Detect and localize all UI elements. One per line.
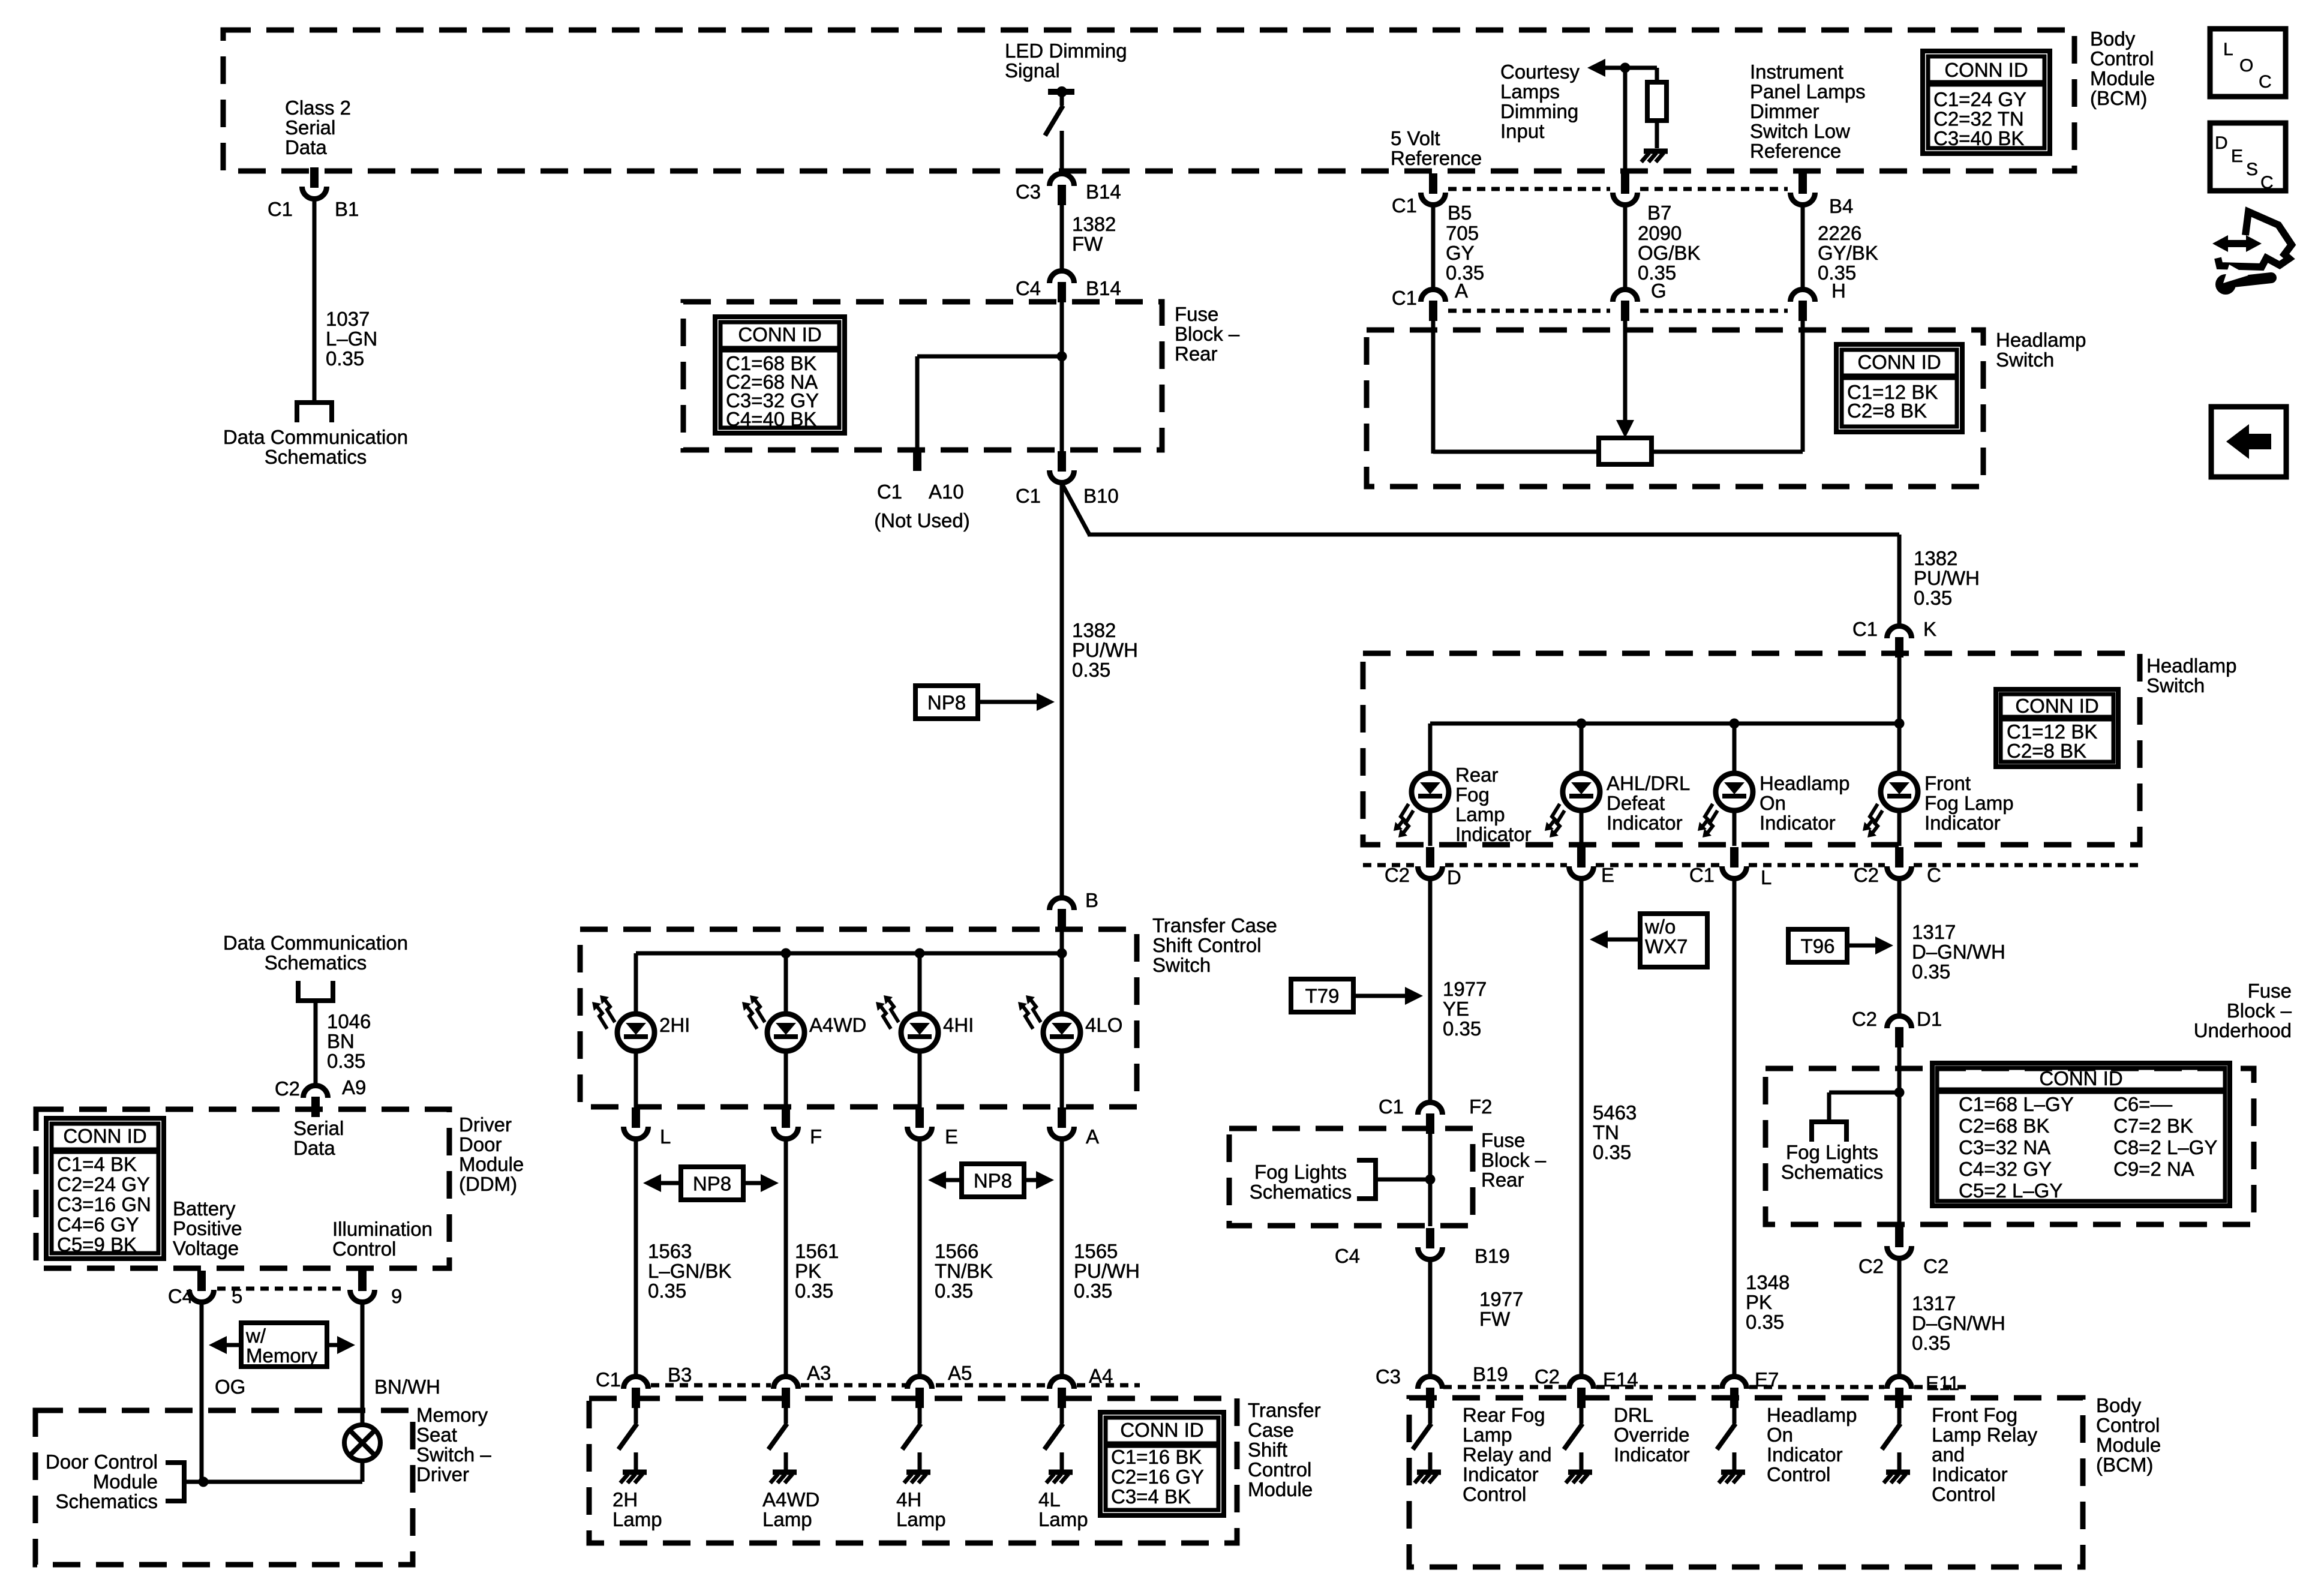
- option box w/o WX7: [1640, 914, 1707, 967]
- wire courtesy to resistor: [1625, 68, 1657, 82]
- svg-text:AHL/DRL: AHL/DRL: [1607, 772, 1690, 794]
- svg-text:0.35: 0.35: [795, 1280, 833, 1302]
- dotted connector line transfer module b: [801, 1383, 906, 1388]
- svg-text:1382: 1382: [1072, 213, 1116, 235]
- svg-text:B14: B14: [1086, 181, 1121, 203]
- svg-text:Control: Control: [2096, 1414, 2160, 1436]
- svg-text:C1=4 BK: C1=4 BK: [57, 1153, 137, 1175]
- connector E7: [1722, 1377, 1747, 1409]
- connector E11: [1887, 1377, 1912, 1409]
- svg-text:L: L: [660, 1125, 671, 1148]
- wire 705 GY: [1431, 206, 1436, 289]
- svg-text:4LO: 4LO: [1085, 1014, 1122, 1036]
- svg-text:Fog Lights: Fog Lights: [1254, 1161, 1347, 1183]
- dotted line ip connector bottom a: [1448, 309, 1610, 313]
- wire fog lights underhood link: [1829, 1092, 1899, 1119]
- svg-text:A5: A5: [948, 1362, 972, 1384]
- svg-text:CONN ID: CONN ID: [2039, 1067, 2122, 1089]
- svg-text:Seat: Seat: [416, 1424, 457, 1446]
- wire B into switch box: [1060, 929, 1064, 955]
- svg-text:Input: Input: [1500, 120, 1544, 142]
- svg-text:NP8: NP8: [927, 692, 966, 714]
- resistor courtesy lamps: [1647, 82, 1667, 121]
- svg-text:Switch –: Switch –: [416, 1443, 491, 1466]
- svg-text:CONN ID: CONN ID: [2015, 695, 2098, 717]
- Fuse Block - Rear box 2: [1229, 1128, 1473, 1226]
- svg-text:1977: 1977: [1443, 978, 1487, 1000]
- svg-text:C7=2 BK: C7=2 BK: [2113, 1115, 2193, 1137]
- svg-text:0.35: 0.35: [1914, 587, 1952, 609]
- ground Front Fog: [1884, 1472, 1910, 1483]
- svg-text:(BCM): (BCM): [2090, 87, 2147, 109]
- svg-text:705: 705: [1446, 222, 1479, 244]
- svg-text:Lamp: Lamp: [1463, 1424, 1512, 1446]
- arrow T96 to wire: [1847, 936, 1893, 954]
- svg-text:Fog Lamp: Fog Lamp: [1924, 792, 2014, 814]
- svg-text:L–GN/BK: L–GN/BK: [648, 1260, 731, 1282]
- svg-text:C4=40 BK: C4=40 BK: [726, 408, 816, 430]
- svg-text:C2=8 BK: C2=8 BK: [1847, 400, 1927, 422]
- wire LED Front Fog Lamp Indicator down: [1897, 809, 1902, 846]
- svg-text:Indicator: Indicator: [1614, 1443, 1690, 1466]
- arrow wiper: [1616, 420, 1634, 438]
- svg-text:C3=40 BK: C3=40 BK: [1933, 127, 2024, 149]
- connector C2/D1: [1887, 1016, 1912, 1048]
- pin labels C1 B1: [268, 198, 359, 220]
- svg-text:Dimmer: Dimmer: [1750, 100, 1819, 122]
- svg-text:Lamp: Lamp: [896, 1508, 946, 1530]
- svg-text:w/: w/: [245, 1325, 266, 1347]
- svg-text:(DDM): (DDM): [459, 1173, 517, 1195]
- svg-text:Memory: Memory: [246, 1344, 318, 1367]
- svg-text:Lamps: Lamps: [1500, 80, 1560, 103]
- svg-text:L: L: [2223, 40, 2233, 59]
- svg-text:Indicator: Indicator: [1607, 812, 1683, 834]
- dotted line headlamp conn e: [1914, 863, 2140, 867]
- svg-text:A3: A3: [807, 1362, 831, 1384]
- bracket to Door Control Module Schematics: [166, 1463, 184, 1501]
- svg-text:LED Dimming: LED Dimming: [1005, 40, 1127, 62]
- svg-text:Indicator: Indicator: [1759, 812, 1836, 834]
- svg-text:A: A: [1455, 280, 1468, 302]
- svg-text:C2=68 BK: C2=68 BK: [1959, 1115, 2049, 1137]
- svg-text:Indicator: Indicator: [1767, 1443, 1843, 1466]
- wire 1566 TN/BK: [918, 1141, 922, 1376]
- svg-text:Positive: Positive: [173, 1217, 242, 1239]
- pin labels C1 B3 A3 A5 A4: [596, 1362, 1113, 1391]
- wire bus to LED A4WD: [784, 953, 788, 1015]
- switch A4WD lamp control: [768, 1424, 787, 1470]
- arrow NP8 to wire: [978, 693, 1055, 711]
- option box NP8 left pair: [681, 1167, 743, 1200]
- svg-text:Fuse: Fuse: [2248, 980, 2292, 1002]
- svg-text:1317: 1317: [1912, 921, 1956, 943]
- LED indicator A4WD: [742, 995, 804, 1051]
- dotted connector line transfer module d: [1077, 1383, 1140, 1388]
- wire bracket to junction door control: [186, 1480, 203, 1484]
- svg-text:Headlamp: Headlamp: [1759, 772, 1849, 794]
- svg-text:Panel Lamps: Panel Lamps: [1750, 80, 1866, 103]
- wire BN/WH: [361, 1303, 365, 1425]
- svg-text:0.35: 0.35: [1074, 1280, 1112, 1302]
- junction dot fog lights: [1425, 1175, 1436, 1185]
- svg-text:Driver: Driver: [416, 1463, 469, 1485]
- svg-text:K: K: [1923, 618, 1936, 640]
- wire 1037 L-GN: [313, 200, 317, 400]
- icon LOC box: [2210, 29, 2286, 97]
- svg-text:OG/BK: OG/BK: [1638, 242, 1701, 264]
- wire OG: [200, 1303, 204, 1482]
- wire 5463 TN: [1580, 879, 1584, 1376]
- svg-text:Schematics: Schematics: [55, 1490, 158, 1512]
- svg-text:C3: C3: [1376, 1365, 1401, 1388]
- connector E bcm: [1569, 847, 1594, 878]
- svg-text:Reference: Reference: [1750, 140, 1841, 162]
- svg-text:Transfer Case: Transfer Case: [1152, 914, 1277, 936]
- svg-text:0.35: 0.35: [1443, 1017, 1481, 1040]
- dotted connector line transfer module a: [651, 1383, 771, 1388]
- wire bus to LED AHL/DRL Defeat Indicator: [1580, 724, 1584, 775]
- svg-text:w/o: w/o: [1644, 915, 1676, 938]
- svg-text:0.35: 0.35: [1593, 1141, 1631, 1163]
- ground 2H: [620, 1472, 647, 1483]
- svg-text:C1: C1: [1016, 485, 1041, 507]
- arrow courtesy lamps dimming input: [1587, 59, 1625, 77]
- wire K into headlamp switch: [1897, 658, 1902, 725]
- svg-text:0.35: 0.35: [935, 1280, 973, 1302]
- wire LED AHL/DRL Defeat Indicator down: [1580, 809, 1584, 846]
- svg-text:B10: B10: [1083, 485, 1119, 507]
- svg-text:NP8: NP8: [974, 1170, 1012, 1192]
- connector C3/B14: [1050, 174, 1074, 206]
- svg-text:GY: GY: [1446, 242, 1475, 264]
- svg-text:Data: Data: [293, 1137, 335, 1159]
- svg-text:C6=––: C6=––: [2113, 1093, 2173, 1115]
- arrow NP8 to wire A: [1024, 1171, 1054, 1189]
- svg-text:A10: A10: [929, 481, 964, 503]
- svg-text:Front: Front: [1924, 772, 1971, 794]
- svg-text:Module: Module: [2090, 67, 2155, 89]
- svg-text:C1: C1: [1379, 1095, 1404, 1118]
- pin labels L F E A: [660, 1125, 1099, 1148]
- svg-text:1977: 1977: [1479, 1288, 1523, 1310]
- svg-text:(BCM): (BCM): [2096, 1454, 2153, 1476]
- svg-text:C2=16 GY: C2=16 GY: [1111, 1466, 1204, 1488]
- svg-text:B1: B1: [335, 198, 359, 220]
- bus wire transfer case switch: [636, 951, 1062, 956]
- switch 2H lamp control: [618, 1424, 637, 1470]
- svg-text:B19: B19: [1475, 1245, 1510, 1267]
- wire 1977 YE: [1428, 879, 1433, 1101]
- wire bus to LED 4LO: [1060, 953, 1064, 1015]
- svg-text:BN: BN: [327, 1030, 355, 1052]
- svg-text:CONN ID: CONN ID: [738, 323, 821, 346]
- svg-text:C1: C1: [1392, 287, 1417, 309]
- svg-text:Relay and: Relay and: [1463, 1443, 1552, 1466]
- pin labels C4 B19: [1335, 1245, 1510, 1267]
- connector C3/B19: [1418, 1377, 1443, 1409]
- svg-text:C: C: [2259, 72, 2272, 92]
- svg-text:F2: F2: [1469, 1095, 1493, 1118]
- svg-text:C4: C4: [1335, 1245, 1360, 1267]
- connector C1/B5: [1421, 173, 1446, 205]
- svg-text:Indicator: Indicator: [1463, 1463, 1539, 1485]
- CONN ID table Headlamp Switch 2: [1996, 689, 2118, 767]
- svg-text:Data Communication: Data Communication: [223, 932, 408, 954]
- svg-text:Block –: Block –: [1481, 1149, 1547, 1171]
- svg-text:2090: 2090: [1638, 222, 1682, 244]
- svg-text:A4WD: A4WD: [762, 1488, 819, 1511]
- svg-text:L: L: [1761, 866, 1771, 888]
- svg-text:0.35: 0.35: [326, 347, 364, 370]
- switch Front Fog Lamp Relay control: [1882, 1424, 1900, 1470]
- pin labels C3 B14: [1016, 181, 1121, 203]
- svg-text:C4: C4: [1016, 277, 1041, 299]
- wire LED 4LO down: [1060, 1050, 1064, 1107]
- wire courtesy down to B7: [1623, 68, 1628, 172]
- svg-text:C1: C1: [1392, 194, 1417, 217]
- svg-text:C1=68 L–GY: C1=68 L–GY: [1959, 1093, 2074, 1115]
- svg-text:Front Fog: Front Fog: [1932, 1404, 2017, 1426]
- LED Headlamp On Indicator: [1698, 773, 1753, 837]
- svg-text:D: D: [1447, 866, 1461, 888]
- svg-text:(Not Used): (Not Used): [874, 509, 970, 532]
- CONN ID table BCM: [1923, 51, 2050, 154]
- wire G wiper into switch: [1623, 321, 1628, 420]
- bracket to Fog Lights Schematics rear: [1357, 1160, 1376, 1199]
- dotted line ip connector top a: [1448, 187, 1610, 191]
- svg-text:GY/BK: GY/BK: [1818, 242, 1878, 264]
- svg-text:Fuse: Fuse: [1175, 303, 1218, 325]
- CONN ID table Transfer Case Module: [1100, 1412, 1224, 1515]
- svg-text:Serial: Serial: [285, 116, 335, 139]
- svg-text:1566: 1566: [935, 1240, 978, 1262]
- svg-text:C4=6 GY: C4=6 GY: [57, 1214, 139, 1236]
- stub C1 A10 not used: [913, 450, 921, 471]
- connector A5: [908, 1377, 932, 1409]
- svg-text:Schematics: Schematics: [1250, 1181, 1352, 1203]
- switch DRL Override control: [1564, 1424, 1583, 1470]
- svg-text:Door Control: Door Control: [46, 1451, 158, 1473]
- svg-text:FW: FW: [1072, 233, 1103, 255]
- wire LED 4HI down: [918, 1050, 922, 1107]
- switch LED dimming signal: [1045, 86, 1074, 136]
- wire bracket to junction: [1377, 1178, 1430, 1182]
- svg-text:C: C: [2260, 173, 2274, 193]
- svg-text:B4: B4: [1829, 195, 1853, 217]
- dotted line ip connector bottom b: [1640, 309, 1788, 313]
- Headlamp Switch box 1: [1367, 330, 1983, 487]
- svg-text:1348: 1348: [1746, 1271, 1789, 1293]
- dotted line bcm conn b: [1596, 1385, 1719, 1389]
- svg-text:Underhood: Underhood: [2194, 1019, 2292, 1041]
- junction dot fuse block: [1057, 352, 1067, 362]
- svg-text:Control: Control: [1248, 1458, 1311, 1481]
- connector C1/L: [624, 1107, 648, 1139]
- svg-text:Serial: Serial: [293, 1117, 344, 1139]
- LED indicator 4HI: [876, 995, 938, 1051]
- svg-text:1382: 1382: [1072, 619, 1116, 641]
- pin labels C3 B19 C2: [1376, 1363, 1560, 1388]
- wire LED Rear Fog Lamp Indicator down: [1428, 809, 1433, 846]
- svg-text:Headlamp: Headlamp: [2146, 655, 2236, 677]
- LED Front Fog Lamp Indicator: [1863, 773, 1918, 837]
- svg-text:WX7: WX7: [1645, 935, 1688, 957]
- Headlamp Switch box 2: [1363, 653, 2140, 845]
- wire into module 4L: [1060, 1408, 1064, 1424]
- wire branch diagonal to right: [1062, 484, 1899, 625]
- wire bus to LED 4HI: [918, 953, 922, 1015]
- wire branch to A10: [917, 356, 1062, 450]
- svg-text:Block –: Block –: [2227, 999, 2292, 1022]
- svg-text:4H: 4H: [896, 1488, 921, 1511]
- ground DRL: [1566, 1472, 1592, 1483]
- svg-text:D1: D1: [1917, 1008, 1942, 1030]
- svg-text:Defeat: Defeat: [1607, 792, 1665, 814]
- svg-text:B7: B7: [1647, 202, 1671, 224]
- svg-text:CONN ID: CONN ID: [63, 1125, 146, 1147]
- wire bus to LED Rear Fog Lamp Indicator: [1428, 724, 1433, 775]
- potentiometer headlamp dimmer: [1599, 438, 1652, 464]
- svg-text:C5=9 BK: C5=9 BK: [57, 1233, 137, 1256]
- svg-text:0.35: 0.35: [1072, 659, 1110, 681]
- svg-text:Indicator: Indicator: [1455, 823, 1532, 845]
- pin labels C4 5 9: [168, 1285, 403, 1307]
- option box NP8: [915, 686, 978, 719]
- dotted line headlamp conn d: [1749, 863, 1885, 867]
- pin labels E14 E7 E11: [1603, 1368, 1959, 1394]
- arrow NP8 to wire F: [743, 1174, 779, 1192]
- wire LED dimming to C3: [1060, 131, 1064, 173]
- connector C1/A: [1421, 290, 1446, 322]
- svg-text:C: C: [1927, 864, 1941, 886]
- svg-text:Schematics: Schematics: [265, 951, 367, 974]
- dotted line bcm conn a: [1443, 1385, 1566, 1389]
- connector C4/5: [190, 1271, 214, 1302]
- connector A3: [774, 1377, 798, 1409]
- svg-text:CONN ID: CONN ID: [1857, 351, 1941, 373]
- svg-text:C4=32 GY: C4=32 GY: [1959, 1158, 2052, 1180]
- wire into BCM Front Fog: [1897, 1408, 1902, 1424]
- svg-text:Data Communication: Data Communication: [223, 426, 408, 448]
- svg-text:E: E: [2231, 146, 2243, 166]
- svg-text:A9: A9: [342, 1076, 366, 1098]
- svg-text:E: E: [1601, 864, 1614, 886]
- svg-text:5 Volt: 5 Volt: [1391, 127, 1440, 149]
- wire into module 4H: [918, 1408, 922, 1424]
- connector B4: [1791, 173, 1815, 205]
- svg-text:C2: C2: [1858, 1255, 1884, 1277]
- svg-text:Case: Case: [1248, 1419, 1294, 1441]
- connector 9: [350, 1271, 375, 1302]
- svg-text:1563: 1563: [648, 1240, 692, 1262]
- arrow NP8 to wire E: [928, 1171, 962, 1189]
- pin labels C2 D1: [1852, 1008, 1942, 1030]
- connector C4/B19: [1418, 1228, 1443, 1259]
- wire bus to LED Front Fog Lamp Indicator: [1897, 724, 1902, 775]
- svg-text:0.35: 0.35: [327, 1050, 365, 1072]
- LED Rear Fog Lamp Indicator: [1394, 773, 1449, 837]
- svg-text:Fog: Fog: [1455, 784, 1490, 806]
- option box T96: [1788, 929, 1847, 962]
- svg-text:9: 9: [391, 1285, 402, 1307]
- wire headlamp switch bottom right: [1650, 321, 1803, 452]
- svg-text:1046: 1046: [327, 1010, 371, 1032]
- CONN ID table Fuse Block Underhood: [1932, 1063, 2230, 1206]
- svg-text:Fuse: Fuse: [1481, 1129, 1525, 1151]
- pin labels C1 F2: [1379, 1095, 1493, 1118]
- svg-text:Headlamp: Headlamp: [1996, 329, 2086, 351]
- svg-text:A4WD: A4WD: [809, 1014, 866, 1036]
- svg-text:Module: Module: [93, 1470, 158, 1493]
- svg-text:OG: OG: [215, 1376, 245, 1398]
- connector G: [1613, 290, 1638, 322]
- svg-text:Transfer: Transfer: [1248, 1399, 1321, 1421]
- wire 1382 FW: [1060, 205, 1064, 270]
- svg-text:Switch Low: Switch Low: [1750, 120, 1850, 142]
- svg-text:D–GN/WH: D–GN/WH: [1912, 941, 2005, 963]
- wire 1565 PU/WH: [1060, 1141, 1064, 1376]
- svg-text:E: E: [945, 1125, 958, 1148]
- svg-text:Voltage: Voltage: [173, 1237, 239, 1259]
- svg-text:1382: 1382: [1914, 547, 1957, 569]
- bus wire headlamp switch 2: [1430, 722, 1899, 726]
- svg-text:C1=24 GY: C1=24 GY: [1933, 88, 2026, 110]
- LED AHL/DRL Defeat Indicator: [1545, 773, 1600, 837]
- svg-text:H: H: [1831, 280, 1846, 302]
- connector B transfer case switch: [1050, 898, 1074, 930]
- ground 4L: [1046, 1472, 1073, 1483]
- connector C1/F2: [1418, 1102, 1443, 1134]
- svg-text:CONN ID: CONN ID: [1120, 1419, 1203, 1441]
- connector C4/B14: [1050, 271, 1074, 302]
- wire 1561 PK: [784, 1141, 788, 1376]
- bracket to Fog Lights Schematics underhood: [1812, 1122, 1846, 1142]
- svg-text:YE: YE: [1443, 998, 1469, 1020]
- arrow w/Memory to BN/WH wire: [327, 1336, 355, 1354]
- svg-text:PK: PK: [1746, 1291, 1772, 1313]
- pin labels C2 A9: [275, 1076, 367, 1100]
- svg-text:C2: C2: [1535, 1365, 1560, 1388]
- icon service wrench: [2212, 212, 2292, 295]
- svg-text:Reference: Reference: [1391, 147, 1482, 169]
- dotted line bcm conn d: [1914, 1385, 1968, 1389]
- svg-text:CONN ID: CONN ID: [1944, 59, 2028, 81]
- svg-text:G: G: [1651, 280, 1667, 302]
- svg-text:Control: Control: [1463, 1483, 1526, 1505]
- wire D1 into fuse block underhood: [1897, 1047, 1902, 1225]
- wire LED Headlamp On Indicator down: [1733, 809, 1737, 846]
- svg-text:C2=8 BK: C2=8 BK: [2007, 740, 2086, 762]
- svg-text:1037: 1037: [326, 308, 370, 330]
- svg-text:C4: C4: [168, 1285, 193, 1307]
- connector H: [1791, 290, 1815, 322]
- svg-text:1565: 1565: [1074, 1240, 1118, 1262]
- svg-text:L–GN: L–GN: [326, 328, 377, 350]
- svg-text:Lamp Relay: Lamp Relay: [1932, 1424, 2038, 1446]
- Memory Seat Switch - Driver box: [35, 1410, 413, 1565]
- junction dots on bus: [781, 948, 1067, 959]
- wire 1348 PK: [1733, 879, 1737, 1376]
- wire 1317 D-GN/WH upper: [1897, 879, 1902, 1015]
- svg-text:Block –: Block –: [1175, 323, 1240, 345]
- wire 2090 OG/BK: [1623, 206, 1628, 289]
- svg-text:PU/WH: PU/WH: [1914, 567, 1980, 589]
- Transfer Case Shift Control Switch box: [580, 929, 1137, 1107]
- CONN ID table DDM: [46, 1118, 164, 1259]
- dotted line headlamp conn c: [1596, 863, 1720, 867]
- wire 1382 PU/WH main: [1060, 484, 1064, 897]
